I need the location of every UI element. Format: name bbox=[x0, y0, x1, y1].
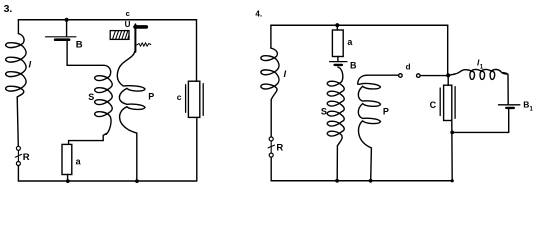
figure label 4. bbox=[255, 9, 262, 18]
wire: battery B1 bottom to oscillatory loop (circuit 4) bbox=[452, 109, 509, 133]
inductor l1 (circuit 4) bbox=[455, 69, 507, 79]
svg-text:1: 1 bbox=[480, 64, 484, 71]
resistor a (circuit 3) bbox=[62, 144, 72, 174]
node: junction dot P lead / bottom wire (circuit 4) bbox=[369, 179, 373, 183]
inductor l (circuit 3) bbox=[6, 34, 26, 98]
wire: l1 to battery B1 (circuit 4) bbox=[503, 73, 508, 105]
node: junction dot oscillatory loop (circuit 4) bbox=[450, 131, 454, 135]
wire: P coil top to spark gap d (circuit 4) bbox=[367, 74, 399, 76]
battery B (circuit 4) bbox=[330, 62, 347, 65]
label B1 (circuit 4) bbox=[523, 100, 533, 113]
svg-text:4.: 4. bbox=[255, 9, 262, 18]
svg-text:a: a bbox=[76, 156, 82, 166]
wire: node to inductor l1 (circuit 4) bbox=[448, 74, 455, 75]
svg-text:R: R bbox=[276, 142, 283, 153]
node: junction dot P lead / bottom wire (circuit 3) bbox=[135, 179, 139, 183]
figure label 3. bbox=[4, 3, 13, 15]
svg-text:B: B bbox=[76, 39, 83, 50]
svg-text:l: l bbox=[284, 69, 287, 80]
svg-text:U: U bbox=[125, 20, 131, 29]
interrupter spring zigzag (circuit 3) bbox=[137, 43, 151, 46]
wire: circuit 3 right vertical top bbox=[196, 20, 198, 81]
label a (circuit 3) bbox=[76, 156, 82, 166]
svg-text:l: l bbox=[29, 60, 32, 71]
inductor l (circuit 4) bbox=[261, 48, 279, 100]
wire: S coil to resistor a with step (circuit 3) bbox=[69, 134, 107, 145]
battery B1 (circuit 4) bbox=[499, 105, 520, 108]
label R (circuit 3) bbox=[23, 152, 30, 163]
label S (circuit 3) bbox=[88, 92, 94, 102]
label d (circuit 4) bbox=[406, 63, 411, 72]
svg-text:R: R bbox=[23, 152, 30, 163]
battery B (circuit 3) bbox=[46, 37, 76, 40]
node: junction dot resistor a / bottom wire (circuit 3) bbox=[66, 179, 70, 183]
svg-text:c: c bbox=[177, 92, 182, 102]
label c (contact, circuit 3 top) bbox=[126, 9, 130, 18]
wire: S coil bottom lead (circuit 4) bbox=[336, 146, 338, 181]
svg-text:P: P bbox=[148, 92, 154, 102]
wire: node down to capacitor C (circuit 4) bbox=[447, 75, 449, 85]
label U (interrupter, circuit 3) bbox=[125, 20, 131, 29]
wire: circuit 3 right vertical bottom bbox=[196, 117, 198, 181]
wire: circuit 3 bottom bbox=[18, 180, 196, 182]
coil S secondary (circuit 3) bbox=[95, 65, 113, 134]
label l (circuit 4) bbox=[284, 69, 287, 80]
wire: circuit 4 left vertical top bbox=[270, 25, 272, 48]
primary coil P (circuit 3) bbox=[117, 52, 145, 134]
node: junction dot capacitor lead / bottom wire (circuit 4) bbox=[451, 179, 454, 182]
wire: P coil bottom lead (circuit 4) bbox=[370, 148, 373, 181]
label l (circuit 3) bbox=[29, 60, 32, 71]
label c (capacitor, circuit 3) bbox=[177, 92, 182, 102]
capacitor c (Leyden jar, circuit 3) bbox=[186, 81, 204, 117]
wire: circuit 4 left vertical bottom bbox=[270, 157, 272, 181]
node: junction dot at battery B branch (circuit 3) bbox=[65, 18, 69, 22]
primary coil P (circuit 4) bbox=[358, 75, 381, 148]
wire: spark gap to node (circuit 4) bbox=[420, 75, 448, 77]
label B (circuit 4) bbox=[350, 60, 357, 70]
capacitor C (Leyden jar, circuit 4) bbox=[440, 85, 455, 120]
svg-text:d: d bbox=[406, 63, 411, 72]
svg-text:S: S bbox=[321, 107, 327, 117]
svg-text:3.: 3. bbox=[4, 3, 13, 15]
wire: circuit 3 top bbox=[18, 19, 196, 21]
svg-text:B: B bbox=[350, 60, 357, 70]
wire: circuit 3 left vertical mid bbox=[17, 97, 18, 146]
spark gap d left ball (circuit 4) bbox=[399, 74, 403, 78]
svg-text:P: P bbox=[383, 107, 389, 117]
label S (circuit 4) bbox=[321, 107, 327, 117]
label R (circuit 4) bbox=[276, 142, 283, 153]
node: junction dot S lead / bottom wire (circuit 4) bbox=[335, 179, 339, 183]
svg-text:C: C bbox=[430, 100, 437, 110]
wire: circuit 4 right vertical (top wire down to node) bbox=[447, 25, 449, 75]
label P (circuit 4) bbox=[383, 107, 389, 117]
coil S secondary (circuit 4) bbox=[327, 67, 344, 146]
wire: battery B top lead (circuit 3) bbox=[66, 20, 68, 36]
label C (circuit 4) bbox=[430, 100, 437, 110]
wire: circuit 4 bottom bbox=[271, 180, 452, 182]
wire: resistor a to battery B (circuit 4) bbox=[337, 57, 339, 62]
wire: resistor a top lead (circuit 4) bbox=[336, 25, 338, 30]
svg-text:a: a bbox=[347, 37, 353, 47]
wire: circuit 4 top bbox=[271, 24, 448, 26]
label l1 (circuit 4) bbox=[477, 57, 484, 70]
wire: circuit 3 left vertical top segment bbox=[17, 20, 19, 34]
node: junction dot capacitor branch (circuit 4) bbox=[446, 73, 450, 77]
wire: battery B to secondary S (circuit 3) bbox=[67, 41, 104, 65]
key R (circuit 3) bbox=[15, 146, 21, 165]
wire: resistor a bottom lead (circuit 3) bbox=[67, 175, 69, 182]
resistor a (circuit 4) bbox=[332, 30, 343, 57]
label a (circuit 4) bbox=[347, 37, 353, 47]
wire: P coil bottom lead (circuit 3) bbox=[136, 133, 138, 181]
interrupter electromagnet core (hatched box, circuit 3) bbox=[110, 31, 129, 40]
node: junction dot resistor a branch (circuit 4) bbox=[335, 23, 339, 27]
svg-text:1: 1 bbox=[530, 106, 534, 112]
svg-text:S: S bbox=[88, 92, 94, 102]
interrupter hammer spring bar (circuit 3) bbox=[134, 24, 136, 51]
spark gap d right ball (circuit 4) bbox=[417, 74, 421, 78]
wire: circuit 4 left vertical mid bbox=[270, 100, 272, 137]
key R (circuit 4) bbox=[268, 137, 274, 157]
label B (circuit 3) bbox=[76, 39, 83, 50]
wire: capacitor C bottom lead (circuit 4) bbox=[451, 121, 453, 181]
svg-text:c: c bbox=[126, 9, 130, 18]
label P (circuit 3) bbox=[148, 92, 154, 102]
wire: circuit 3 left vertical bottom bbox=[17, 166, 19, 181]
interrupter hammer head (circuit 3) bbox=[135, 25, 146, 29]
